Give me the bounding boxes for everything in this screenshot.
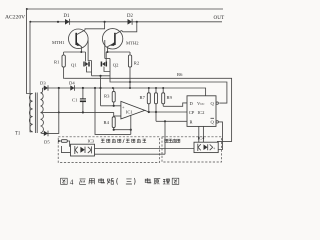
resistor R2 xyxy=(128,52,131,89)
label D1 xyxy=(64,14,70,19)
wire secondary top lead xyxy=(41,88,43,93)
thyristor Q1 xyxy=(84,62,89,67)
node dot C1 top xyxy=(82,87,84,89)
svg-text:R9: R9 xyxy=(167,95,173,100)
thyristor Q2 xyxy=(101,62,106,67)
svg-text:D2: D2 xyxy=(127,14,133,19)
wire rail B left segment xyxy=(29,21,222,23)
resistor R9 xyxy=(162,87,165,106)
label R9 xyxy=(167,95,173,100)
svg-text:D3: D3 xyxy=(40,81,46,86)
wire op-amp output xyxy=(145,110,187,112)
transistor MTH2 body xyxy=(108,31,122,53)
label R6 xyxy=(177,72,183,77)
wire Q2 bottom jog xyxy=(104,67,110,72)
svg-text:MTH2: MTH2 xyxy=(126,41,139,46)
svg-text:IC3: IC3 xyxy=(88,139,95,144)
resistor R7 xyxy=(147,87,150,112)
capacitor C1 xyxy=(80,88,86,112)
svg-text:R3: R3 xyxy=(104,94,110,99)
label Q2 xyxy=(113,63,119,68)
wire IC3 right to IC4 xyxy=(95,149,195,155)
caption figure 4 xyxy=(61,178,179,187)
resistor R8 xyxy=(155,87,158,121)
wire op-amp minus input xyxy=(114,115,121,117)
optocoupler IC4 xyxy=(194,142,218,152)
node dot right of D2 xyxy=(136,21,138,23)
wire opamp power pin xyxy=(130,116,132,130)
node dot D5 riser top xyxy=(58,87,60,89)
svg-text:CP: CP xyxy=(189,110,195,115)
wire +V rail xyxy=(43,88,206,96)
wire top rail A xyxy=(26,8,223,10)
svg-text:IC1: IC1 xyxy=(126,110,134,115)
transistor MTH1 circle xyxy=(69,29,89,49)
svg-text:Q1: Q1 xyxy=(71,62,77,67)
resistor R4 xyxy=(112,112,115,129)
dashed box zero cross xyxy=(58,137,159,163)
svg-text:D4: D4 xyxy=(69,81,75,86)
wire R pin line xyxy=(156,120,187,122)
svg-text:R6: R6 xyxy=(177,72,183,77)
transformer T1 secondary winding xyxy=(41,93,44,133)
svg-text:D1: D1 xyxy=(64,14,70,19)
wire center sense drop xyxy=(99,76,101,106)
wire AC drop 2 xyxy=(29,22,31,132)
transformer T1 core xyxy=(35,93,37,134)
resistor R5 xyxy=(58,140,70,147)
diode D3 xyxy=(44,85,48,91)
wire Q1 feed xyxy=(85,52,87,62)
IC2 box xyxy=(187,96,218,127)
wire MTH1 collector to rail xyxy=(85,22,105,30)
wire MTH2 collector to rail xyxy=(122,22,137,32)
svg-text:Q2: Q2 xyxy=(113,63,119,68)
node dot output R7 xyxy=(148,111,150,113)
label AC220V xyxy=(5,15,25,21)
wire Q2 feed xyxy=(105,52,107,62)
svg-text:T1: T1 xyxy=(15,132,21,137)
node dot left of D1 xyxy=(57,21,59,23)
label R2 xyxy=(134,61,140,66)
node dot R2 on L2 xyxy=(129,81,131,83)
wire drop to zero cross box xyxy=(130,130,132,135)
diode D1 xyxy=(65,19,70,25)
label R3 xyxy=(104,94,110,99)
label MTH2 xyxy=(126,41,139,46)
label C1 xyxy=(72,98,78,103)
label Q1 xyxy=(71,62,77,67)
wire IC3 left pins xyxy=(62,146,71,153)
transistor MTH2 circle xyxy=(102,29,122,49)
wire IC2 bottom pins to IC4 xyxy=(199,126,204,142)
wire secondary mid rail xyxy=(41,111,114,113)
svg-text:R4: R4 xyxy=(104,120,110,125)
label IC3 xyxy=(88,139,95,144)
diode D2 xyxy=(128,19,133,25)
svg-text:MTH1: MTH1 xyxy=(52,40,65,45)
wire op-amp plus input xyxy=(101,105,121,107)
svg-text:R7: R7 xyxy=(140,95,146,100)
wire line L1 main xyxy=(64,78,231,144)
wire MTH1 base drop xyxy=(88,40,91,61)
svg-text:4: 4 xyxy=(70,179,74,187)
resistor R3 xyxy=(112,88,115,106)
wire cathode bracket xyxy=(92,61,111,77)
transformer T1 primary winding xyxy=(29,94,32,132)
wire MTH2 base drop xyxy=(104,40,106,59)
diode D5 xyxy=(44,131,48,137)
label D2 xyxy=(127,14,133,19)
label OUT xyxy=(214,15,225,21)
wire AC drop 1 xyxy=(27,9,30,94)
svg-text:C1: C1 xyxy=(72,98,78,103)
wire Qbar to IC4 xyxy=(218,122,222,150)
wire R4 bottom to opamp power xyxy=(113,129,132,131)
wire gate drop MTH2 link xyxy=(105,58,110,60)
label R1 xyxy=(54,60,60,65)
node dot output R8 xyxy=(155,111,157,113)
diode D4 xyxy=(70,85,74,91)
label zero cross text xyxy=(101,139,146,143)
label MTH1 xyxy=(52,40,65,45)
svg-text:R1: R1 xyxy=(54,60,60,65)
op-amp IC1 xyxy=(121,101,145,119)
transistor MTH1 body xyxy=(76,30,85,52)
label output off text xyxy=(165,139,180,143)
svg-text:IC2: IC2 xyxy=(198,110,206,115)
node dot mid C1 xyxy=(82,111,84,113)
dashed box output off xyxy=(162,137,222,162)
svg-text:R2: R2 xyxy=(134,61,140,66)
wire R2 top link xyxy=(106,51,130,53)
label D5 xyxy=(44,140,50,145)
wire R9 to D pin xyxy=(163,103,187,106)
wire line L2 gate drive xyxy=(110,59,227,104)
node dot collector MTH1 rail xyxy=(104,21,106,23)
svg-text:OUT: OUT xyxy=(214,15,225,21)
svg-text:AC220V: AC220V xyxy=(5,15,25,21)
node dot mid D5riser xyxy=(58,111,60,113)
wire secondary bottom lead and D5 line xyxy=(41,88,59,133)
svg-text:Vcc: Vcc xyxy=(197,101,204,106)
wire R1 top link xyxy=(64,51,86,53)
label IC4 xyxy=(198,136,206,141)
label R7 xyxy=(140,95,146,100)
wire Q1 bottom jog xyxy=(87,67,92,73)
wire zero cross tap drop xyxy=(94,87,131,134)
node dots on +V xyxy=(112,87,131,89)
optocoupler IC3 xyxy=(71,144,95,156)
label D4 xyxy=(69,81,75,86)
wire R9 bottom to R line xyxy=(164,121,166,154)
label T1 xyxy=(15,132,21,137)
label D3 xyxy=(40,81,46,86)
label R4 xyxy=(104,120,110,125)
resistor R1 xyxy=(62,52,65,78)
svg-text:D5: D5 xyxy=(44,140,50,145)
svg-text:IC4: IC4 xyxy=(198,136,206,141)
